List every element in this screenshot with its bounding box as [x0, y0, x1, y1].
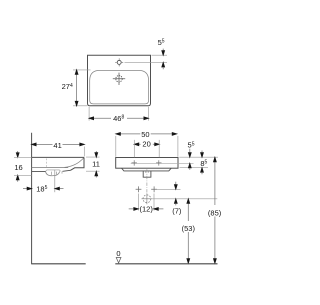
waste connection symbol (dashed circle): [143, 195, 151, 203]
centre line (front): [146, 169, 148, 193]
dimension 41 (side, top): [36, 143, 84, 145]
floor line (left segment): [31, 263, 85, 265]
extension line rim front (27.4 dim): [73, 105, 87, 107]
extension lines basin width (46.8 dim): [89, 107, 148, 121]
dimension 16 (side, left): [17, 151, 19, 182]
hidden overflow line (dashed): [46, 159, 48, 168]
extension from supply right (7 dim): [157, 188, 181, 190]
basin front outline: [116, 158, 178, 169]
tap hole: [117, 60, 121, 64]
extension line underside (16 dim): [14, 174, 32, 176]
apron lower edge: [122, 168, 172, 171]
svg-text:50: 50: [141, 130, 149, 139]
rim top edge (side): [32, 156, 84, 158]
svg-text:0: 0: [116, 249, 120, 258]
trap pipe edges: [52, 171, 63, 175]
bowl interior curve (side): [65, 158, 84, 167]
svg-text:41: 41: [53, 141, 61, 150]
basin front face (side): [71, 157, 85, 170]
svg-text:20: 20: [142, 140, 150, 149]
svg-text:(7): (7): [172, 206, 182, 215]
dimension 5.5 (plan, right): [162, 49, 164, 51]
basin underside (side): [32, 170, 71, 171]
supply connection left (cross): [136, 186, 142, 192]
basin inner edge (plan): [90, 70, 149, 104]
extension line basin back (27.4 dim): [73, 69, 91, 71]
extension line rim corner (41 dim): [83, 147, 85, 157]
drain outlet (front): [143, 171, 151, 177]
bowl bottom line (side): [32, 167, 69, 169]
svg-text:(12): (12): [140, 205, 154, 214]
fixing hole left: [132, 160, 137, 165]
fixing holes axis line: [131, 162, 194, 164]
supply connection right (cross): [151, 186, 157, 192]
dimension 5.5 (front): [189, 149, 191, 153]
floor line (right segment): [115, 263, 217, 265]
wall line: [31, 133, 33, 264]
extension lines 20 dim: [134, 140, 159, 157]
drain flange (side): [46, 170, 61, 171]
trap bowl (side): [46, 171, 60, 175]
washbasin outer rim (plan): [88, 55, 151, 106]
extension line tap axis (5.5 dim): [125, 61, 168, 63]
dimension 50 (front, top): [120, 133, 172, 135]
svg-text:16: 16: [14, 163, 22, 172]
svg-text:(53): (53): [182, 224, 196, 233]
svg-text:(85): (85): [208, 208, 222, 217]
extension lines 50 dim: [116, 136, 178, 157]
svg-text:11: 11: [92, 160, 100, 169]
dimension 85 line: [214, 162, 216, 260]
extension line rim top (5.5 dim): [152, 54, 168, 56]
drain centre line (side): [54, 170, 56, 192]
dimension 20 (front): [139, 143, 155, 145]
dimension 46.8 (plan, bottom): [89, 117, 148, 119]
dimension 12 arrows: [129, 208, 164, 210]
waste hole target (plan): [116, 76, 122, 82]
dimension 7 arrows: [175, 182, 177, 185]
extension line basin bottom (8.5 dim): [180, 167, 209, 169]
extension line rim top left (16 dim): [14, 156, 32, 158]
extension line rim top right (85 dim / 5.5 / 8.5): [179, 156, 218, 158]
fixing hole right: [156, 160, 161, 165]
dimension 11 arrows: [95, 151, 97, 178]
dimension 8.5 (front): [201, 151, 203, 153]
waste level extension line: [152, 198, 217, 200]
dimension 18.5 (side, bottom): [23, 188, 64, 190]
datum triangle: [116, 258, 121, 263]
extension lines 11 dim (side, right): [86, 157, 100, 171]
dimension 53 line: [187, 203, 189, 259]
dimension 27.4 (plan, left): [76, 70, 78, 106]
extension lines supply (12 dim): [138, 194, 154, 211]
